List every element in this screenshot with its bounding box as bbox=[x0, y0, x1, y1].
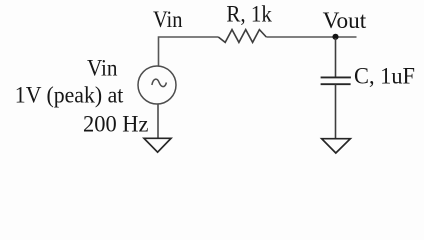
wire: capacitor to ground bbox=[335, 85, 337, 139]
ground (right) bbox=[322, 139, 351, 153]
sine symbol inside source bbox=[152, 79, 167, 86]
svg-text:C, 1uF: C, 1uF bbox=[354, 63, 415, 88]
wire: Vout node down to capacitor bbox=[335, 38, 337, 77]
wire: top horizontal from Vin corner to resistor bbox=[159, 37, 219, 66]
svg-text:Vin: Vin bbox=[87, 56, 118, 81]
node Vout junction dot bbox=[332, 34, 338, 40]
svg-text:R, 1k: R, 1k bbox=[226, 1, 272, 26]
wire: resistor to Vout node and beyond bbox=[266, 36, 356, 38]
resistor R1 zigzag bbox=[218, 30, 266, 43]
svg-text:Vout: Vout bbox=[323, 8, 367, 33]
ground (left) bbox=[144, 138, 171, 152]
wire: source bottom to ground bbox=[157, 104, 159, 138]
capacitor C1 top plate bbox=[321, 76, 351, 78]
svg-text:1V (peak) at: 1V (peak) at bbox=[15, 83, 124, 108]
svg-text:Vin: Vin bbox=[153, 7, 183, 32]
capacitor C1 bottom plate bbox=[321, 83, 351, 85]
svg-text:200 Hz: 200 Hz bbox=[83, 112, 149, 137]
AC source V1 circle bbox=[138, 66, 176, 104]
